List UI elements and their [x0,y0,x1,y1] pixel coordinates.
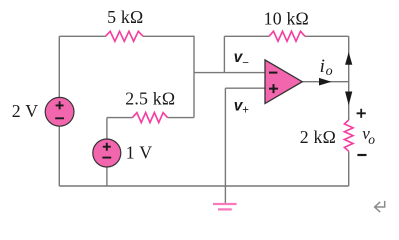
label - of vo [357,154,366,156]
resistor R1 5 kOhm zigzag [106,31,144,41]
wire v+ vertical to bottom [224,88,226,186]
wire right vertical lower [348,151,350,186]
resistor R2 2.5 kOhm zigzag [133,113,168,123]
svg-text:2.5 kΩ: 2.5 kΩ [125,89,175,109]
wire bottom horizontal [59,185,348,187]
voltage source V2 1 V [93,139,121,167]
wire 2.5k right [168,117,195,119]
return symbol [375,201,385,212]
wire v+ input horizontal [225,87,265,89]
voltage source V1 2 V [45,97,74,126]
wire right vertical upper [348,36,350,120]
wire 10k right [305,35,349,37]
svg-text:1 V: 1 V [126,142,152,162]
svg-text:5 kΩ: 5 kΩ [107,7,143,27]
arrow down on right branch [345,92,352,106]
op-amp U1 [265,60,302,104]
wire 1V vertical upper [106,118,108,140]
svg-text:+: + [242,104,249,116]
ground [213,204,237,209]
wire 2.5k left [107,117,133,119]
wire node vertical x=194 [193,36,195,118]
svg-text:o: o [326,64,333,79]
wire v- input horizontal [194,72,265,74]
wire 10k left [224,35,269,37]
svg-text:2 V: 2 V [12,101,38,121]
current arrow io [319,78,332,86]
wire 5k to node [143,35,194,37]
svg-text:i: i [320,56,325,77]
wire left vertical upper [58,36,60,98]
label + of vo [357,109,366,118]
svg-text:−: − [242,58,249,70]
wire feedback vertical [223,36,225,72]
svg-text:10 kΩ: 10 kΩ [264,9,309,29]
wire ground stub [224,186,226,203]
wire 1V vertical lower [106,167,108,186]
svg-text:o: o [368,132,375,147]
wire left vertical lower [58,126,60,186]
resistor R4 2 kOhm vertical zigzag [344,120,353,151]
wire op-amp output [302,81,349,83]
resistor R3 10 kOhm zigzag [269,31,305,41]
wire top-left horizontal (2V to 5k) [59,35,105,37]
arrow up on right branch [345,52,352,65]
svg-text:2 kΩ: 2 kΩ [300,127,336,147]
